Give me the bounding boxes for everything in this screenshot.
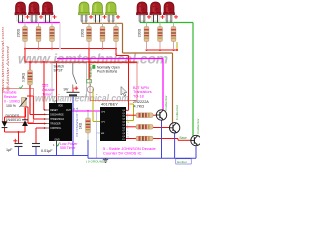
svg-text:1KΩ: 1KΩ (79, 122, 83, 129)
wire red variable-resistor branch to pin6 (33, 96, 35, 119)
wire red diode2 to pin2 (25, 106, 28, 108)
svg-text:Timer: Timer (42, 92, 52, 96)
wire red R11 to T2 base (153, 127, 169, 129)
wire blue T2 emitter down (174, 133, 176, 158)
ground symbol (103, 158, 108, 162)
resistor 4.7K R12 (136, 136, 153, 141)
wire magenta bus under left red LEDs (18, 22, 60, 24)
svg-text:230Ω: 230Ω (138, 28, 142, 37)
wire blue ground bus right (88, 157, 196, 159)
LED red L9 (163, 2, 174, 23)
annotation box variable resistor (3, 89, 34, 123)
capacitor C1 1uF (13, 139, 22, 147)
pin 8 stub 555 top (56, 100, 58, 104)
svg-text:@Akhtar Ahmed: @Akhtar Ahmed (5, 45, 10, 91)
wire blue T1 emitter down (161, 120, 163, 158)
plus marker LED L1 (26, 15, 30, 19)
svg-text:RESET: RESET (89, 64, 93, 78)
wire magenta 555 OUT to 4017 CLK (72, 110, 100, 112)
wire red to resistor R12 (126, 138, 136, 140)
svg-text:SPST: SPST (54, 69, 64, 73)
wire red horizontal to 4017 (116, 55, 129, 57)
resistor 3.9K (28, 70, 33, 85)
resistor 230ohm R9 (171, 23, 176, 51)
wire red bus under left/green resistors (25, 48, 116, 50)
wire red 4017 Q stub (126, 109, 129, 111)
resistor 230ohm R5 (100, 23, 105, 49)
plus marker LED L9 (174, 15, 178, 19)
svg-text:9: 9 (127, 134, 128, 136)
battery V1 9V (67, 86, 80, 95)
svg-text:MR: MR (101, 133, 105, 135)
svg-text:100 %: 100 % (6, 104, 16, 108)
LED red L7 (136, 2, 147, 23)
wire magenta horizontal (over watermark) (57, 58, 163, 60)
wire red bus under right resistors (147, 49, 178, 51)
plus marker LED L4 (89, 15, 93, 19)
push button S2 (87, 80, 94, 93)
resistor 4.7K R11 (136, 125, 153, 130)
wire brown vertical to T2 collector (172, 53, 174, 123)
capacitor C2 0.01uF (32, 144, 40, 147)
wire green vertical to T3 collector (192, 23, 194, 137)
wire red 3.9K top lead (29, 62, 31, 70)
svg-text:Base: Base (180, 136, 187, 140)
wire red horizontal to switch rail (25, 61, 137, 63)
variable resistor symbol (20, 98, 28, 108)
LED green L6 (105, 2, 116, 23)
svg-text:4: 4 (127, 116, 128, 118)
svg-text:3.9KΩ: 3.9KΩ (22, 72, 26, 82)
svg-text:7: 7 (127, 119, 128, 121)
wire brown bus under green LEDs (82, 22, 123, 24)
wire blue cap C1 down (18, 147, 20, 156)
wire red 3.9K bottom to pin7 (29, 85, 31, 115)
diode D2 1N4001 (22, 120, 28, 126)
svg-text:RESET: RESET (50, 110, 58, 112)
wire red to resistor R10 (126, 114, 136, 116)
svg-text:TLC555CD: TLC555CD (75, 107, 79, 137)
wire red to resistor R11 (126, 126, 136, 128)
checkmark variable resistor (20, 85, 23, 88)
resistor 230ohm R6 (114, 23, 119, 49)
transistor Q1 2N2222A (156, 110, 166, 120)
resistor 230ohm R4 (87, 23, 92, 49)
svg-text:CONTROL: CONTROL (50, 128, 62, 130)
node dot at 1K top (87, 110, 89, 112)
wire blue battery negative down (72, 96, 74, 156)
icon green tag (92, 65, 95, 69)
svg-text:555: 555 (42, 84, 48, 88)
node dot 3.9k top (29, 61, 31, 63)
resistor 230ohm R1 (23, 23, 28, 49)
svg-text:4.7KΩ: 4.7KΩ (134, 105, 145, 109)
LED red L2 (28, 2, 39, 23)
plus marker LED L3 (53, 15, 57, 19)
svg-text:( 0 GROUND: ( 0 GROUND (86, 159, 105, 163)
wire blue ground bus jog (87, 156, 89, 159)
node junction dots right resistor bus (146, 49, 148, 51)
wire yellow from button to 4017 CP1 (92, 89, 94, 122)
switch SPST S1 (73, 63, 77, 88)
wire red C1 top lead (18, 132, 20, 144)
svg-text:555 Timer: 555 Timer (60, 146, 76, 150)
svg-text:Collector: Collector (175, 105, 179, 121)
svg-text:9V: 9V (64, 87, 69, 92)
svg-text:2: 2 (127, 113, 128, 115)
resistor 230ohm R3 (50, 23, 55, 49)
LED red L3 (42, 2, 53, 23)
svg-text:Push Buttons: Push Buttons (97, 70, 117, 74)
wire red drop left group (24, 49, 26, 63)
LED red L8 (150, 2, 161, 23)
checkmark low power (57, 143, 60, 147)
wire black 555 pin1 stub (56, 141, 58, 147)
resistor 4.7K R10 (136, 113, 153, 118)
resistor 230ohm R7 (144, 23, 149, 51)
svg-text:CO: CO (122, 139, 125, 141)
callout Emitter box (176, 159, 191, 164)
wire lavender MR to ground (96, 133, 98, 158)
resistor 1K (87, 111, 89, 118)
svg-text:1μF: 1μF (6, 148, 13, 152)
svg-text:Collector: Collector (196, 118, 200, 134)
svg-text:230Ω: 230Ω (81, 28, 85, 37)
svg-text:1N4001G: 1N4001G (6, 118, 22, 122)
wire red vertical to 4017 Q0 (128, 56, 130, 111)
svg-text:TRIGGER: TRIGGER (50, 123, 61, 125)
plus marker LED L7 (147, 15, 151, 19)
wire brown drop (122, 23, 124, 53)
svg-text:10: 10 (127, 122, 129, 124)
wire red pin5 to C2 (36, 127, 47, 129)
wire blue 555 pin1 down (56, 147, 58, 156)
wire blue 1K resistor down (87, 140, 89, 156)
svg-text:230Ω: 230Ω (17, 28, 21, 37)
svg-text:3: 3 (127, 111, 128, 113)
annotation box push buttons (90, 63, 137, 101)
wire brown horizontal to T2 (123, 52, 173, 54)
plus marker LED L8 (161, 15, 165, 19)
LED green L4 (78, 2, 89, 23)
wire pale drop from magenta bus (59, 23, 61, 49)
LED red L1 (15, 2, 26, 23)
op-amp 555 timer U1 (49, 103, 72, 141)
wire blue T3 emitter down (195, 146, 197, 159)
svg-text:6: 6 (127, 131, 128, 133)
diode D1 1N4001 (2, 121, 8, 127)
svg-text:11: 11 (127, 137, 129, 139)
node junction dots left resistor bus (24, 48, 26, 50)
plus marker LED L5 (103, 15, 107, 19)
svg-text:OUT: OUT (66, 110, 71, 112)
svg-text:4017BEY: 4017BEY (101, 102, 118, 107)
counter IC 4017 U2 (100, 107, 126, 141)
resistor 230ohm R8 (158, 23, 163, 51)
svg-text:GND: GND (54, 139, 59, 141)
wire red R10 to T1 base (153, 114, 156, 116)
svg-text:DISCHARGE: DISCHARGE (50, 113, 64, 116)
transistor Q3 2N2222A (191, 135, 201, 145)
plus marker LED L2 (39, 15, 43, 19)
wire magenta vertical to T1 collector (162, 59, 164, 111)
svg-text:VDD: VDD (58, 106, 63, 108)
plus marker LED L6 (116, 15, 120, 19)
svg-text:0 - 100KΩ: 0 - 100KΩ (4, 99, 20, 103)
svg-text:Emitter: Emitter (177, 160, 187, 164)
svg-text:TO-18: TO-18 (133, 94, 144, 98)
wire blue cap C2 down (35, 147, 37, 156)
svg-text:DIODES: DIODES (6, 114, 20, 118)
wire red diode mesh (4, 117, 6, 122)
svg-text:Collector: Collector (164, 95, 168, 111)
node dot rail (56, 61, 58, 63)
svg-text:1: 1 (127, 125, 128, 127)
svg-text:0.01μF: 0.01μF (41, 149, 53, 153)
transistor Q2 2N2222A (169, 123, 179, 133)
svg-text:Resistor: Resistor (4, 95, 18, 99)
wire red R12 to T3 base (153, 138, 178, 140)
resistor 230ohm R2 (36, 23, 41, 49)
svg-text:THRESHOLD: THRESHOLD (50, 119, 64, 121)
wire green bus under right red LEDs (140, 22, 193, 24)
svg-text:2N2222A: 2N2222A (133, 100, 149, 104)
annotation box switch (52, 63, 87, 97)
svg-text:5: 5 (127, 128, 128, 130)
wire red RESET vertical (88, 49, 90, 80)
svg-text:Counter 5V CMOS IC: Counter 5V CMOS IC (103, 151, 142, 156)
wire red from green-group bus down (115, 49, 117, 56)
wire lavender 4017 MR (96, 111, 98, 133)
wire blue ground bus left (19, 155, 89, 157)
mouse cursor (121, 87, 127, 97)
wire red power rail to 555 VDD (56, 62, 58, 100)
wire yellow 4017 loop (126, 120, 134, 122)
pin stubs 555 left (47, 109, 50, 111)
wire red reset pin4 vertical (43, 62, 45, 110)
LED green L5 (92, 2, 103, 23)
wire yellow stub above right bus end (176, 42, 178, 50)
